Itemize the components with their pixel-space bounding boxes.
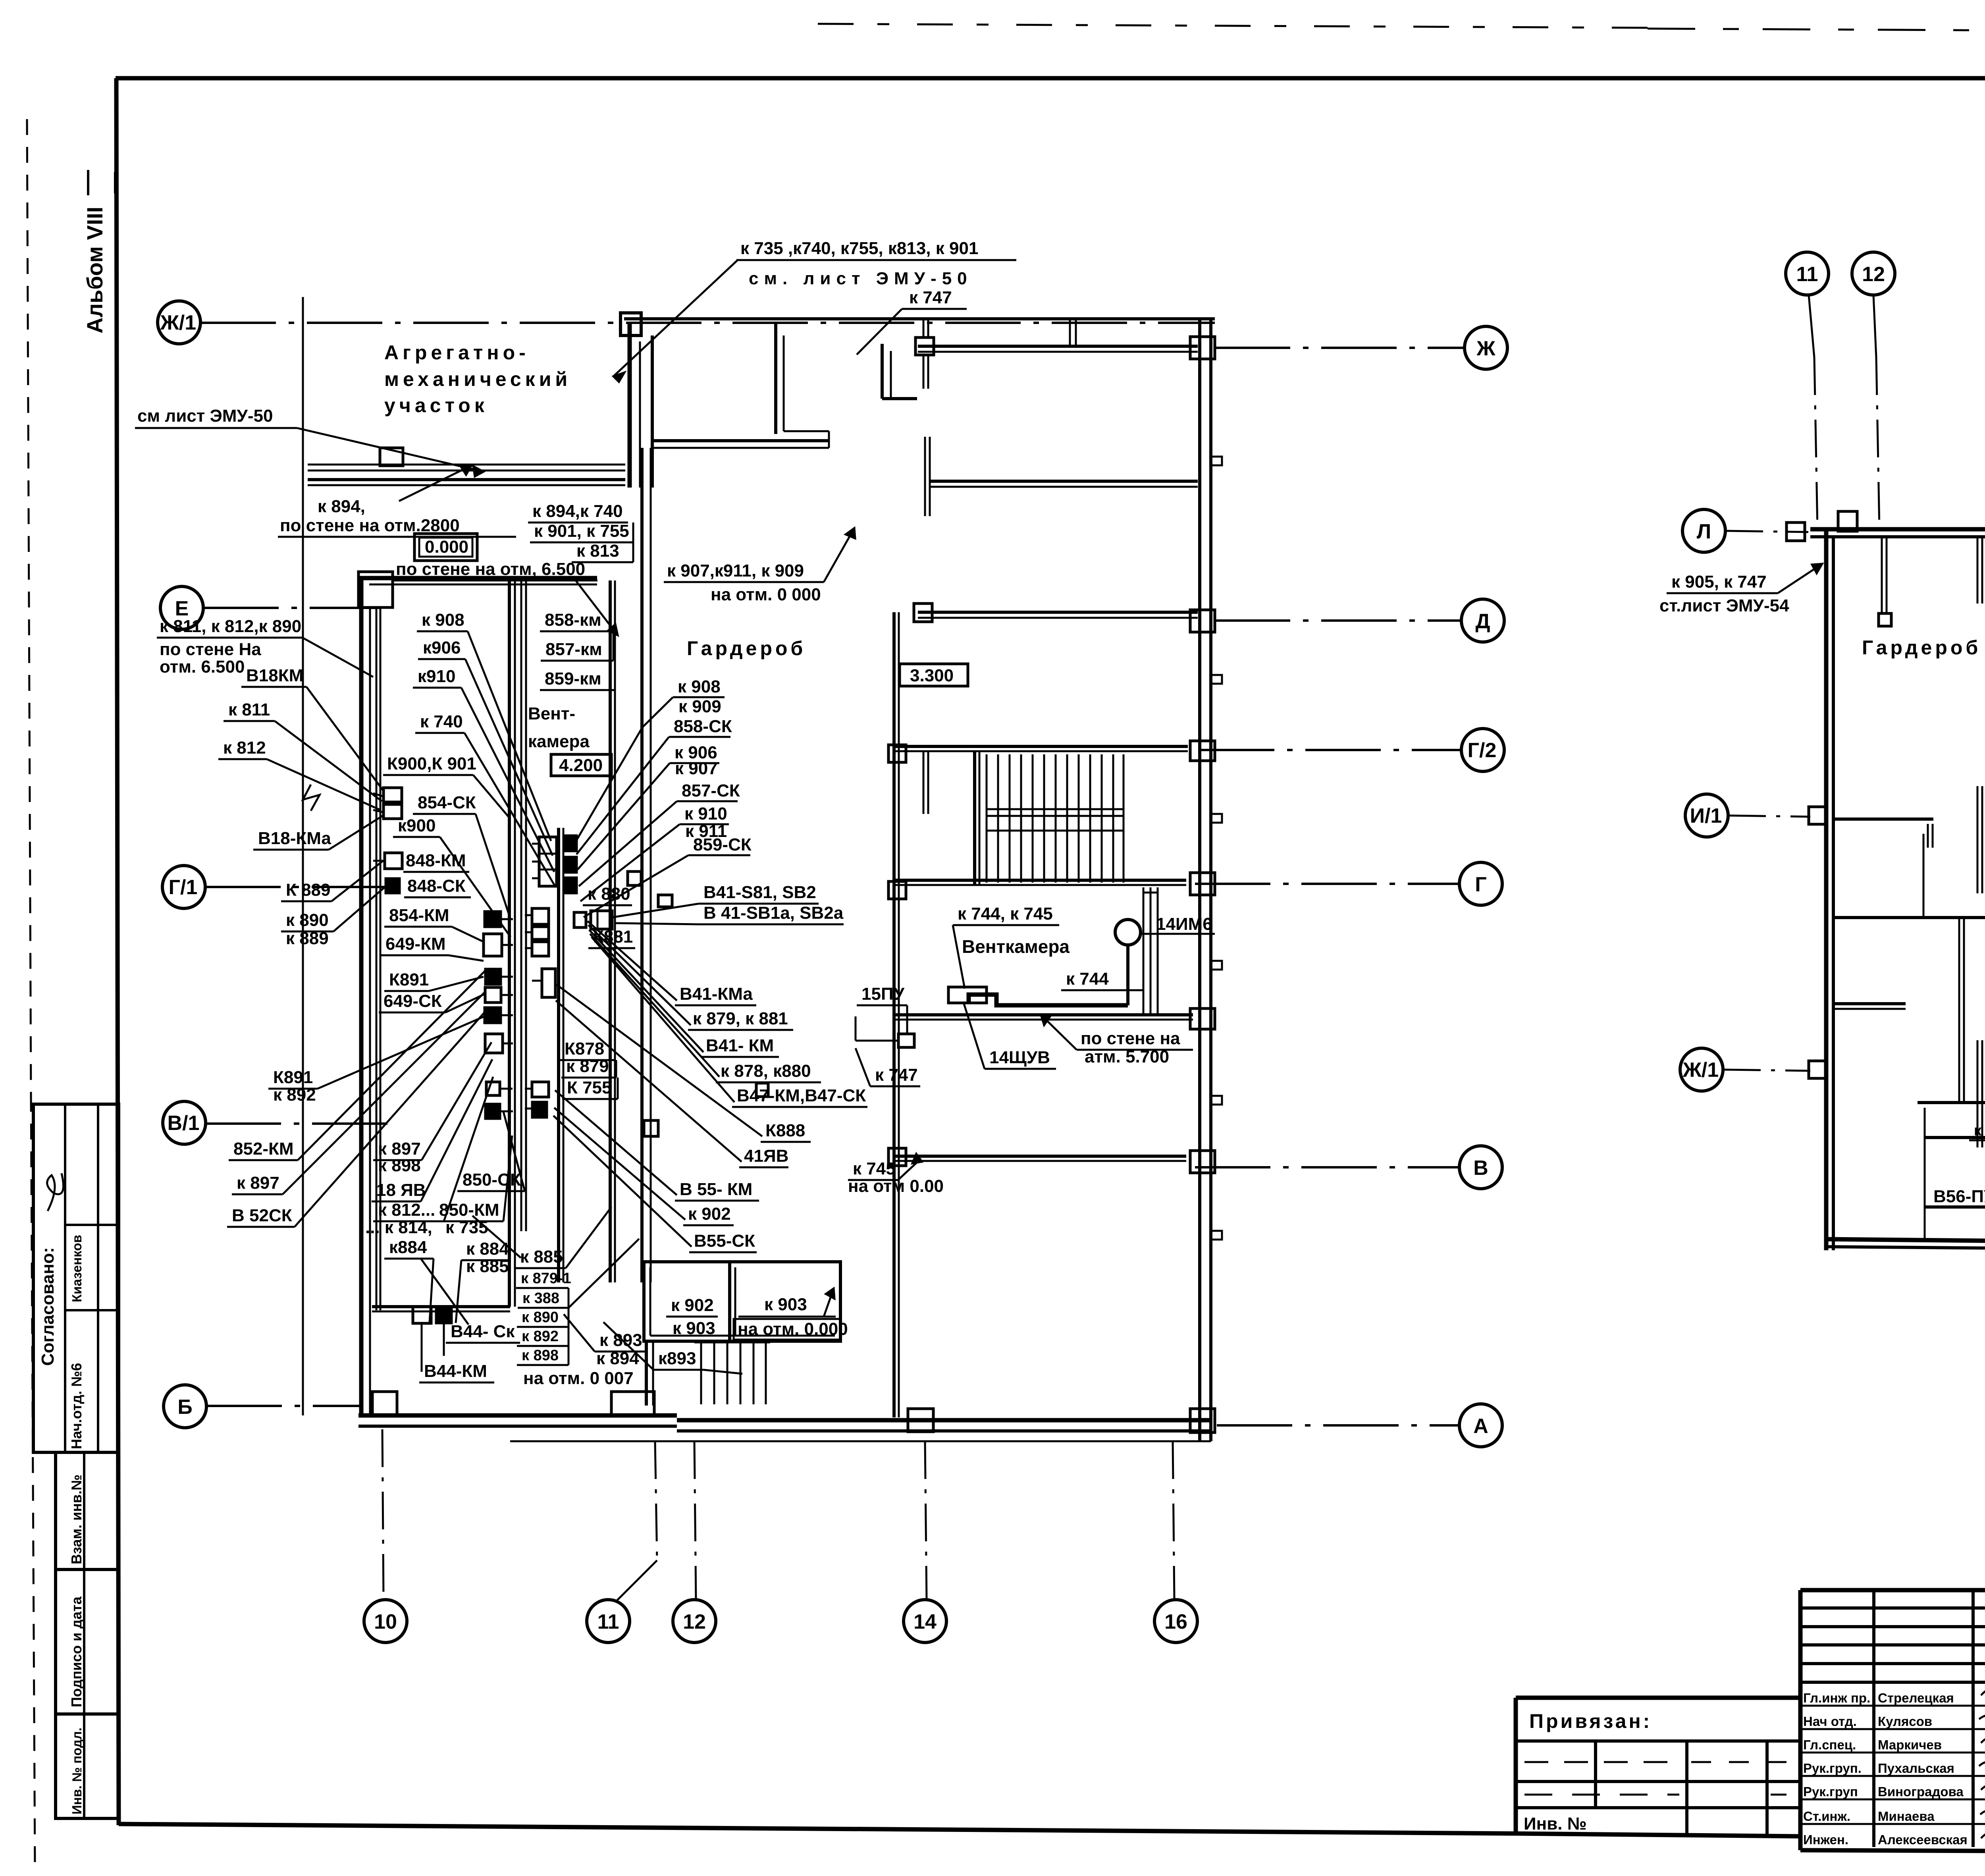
svg-text:Согласовано:: Согласовано:: [38, 1247, 58, 1366]
bottom-left room partition: [372, 1305, 510, 1308]
svg-text:850-СК: 850-СК: [463, 1170, 521, 1190]
axis Ж/1 circle right plan: [1680, 1048, 1723, 1091]
left binding dash-dot line: [27, 119, 31, 1096]
svg-text:к 890: к 890: [286, 910, 329, 930]
svg-text:Л: Л: [1697, 520, 1711, 543]
columns on section wall: [888, 745, 906, 762]
svg-text:В18-КМа: В18-КМа: [258, 829, 331, 848]
svg-text:к 910: к 910: [684, 804, 727, 823]
grid circle 12: [1852, 252, 1895, 295]
axis Г circle right: [1195, 883, 1459, 885]
axis Б circle: [164, 1385, 206, 1428]
axis А circle right: [1217, 1424, 1459, 1427]
svg-text:Инв. №: Инв. №: [1524, 1814, 1587, 1834]
svg-text:механический: механический: [384, 368, 571, 390]
svg-text:0.000: 0.000: [425, 537, 468, 557]
svg-text:Ж: Ж: [1476, 337, 1496, 360]
svg-text:854-КМ: 854-КМ: [389, 906, 449, 925]
device box 14ЩУВ: [948, 987, 987, 1003]
svg-text:ст.лист ЭМУ-54: ст.лист ЭМУ-54: [1659, 596, 1789, 615]
svg-text:к 903: к 903: [673, 1319, 715, 1338]
paper top edge dashes: [818, 24, 1648, 28]
svg-text:12: 12: [683, 1610, 706, 1633]
svg-text:649-КМ: 649-КМ: [385, 934, 446, 954]
svg-text:Г/2: Г/2: [1468, 739, 1497, 762]
svg-text:Агрегатно-: Агрегатно-: [384, 341, 530, 364]
right section partition Г/2 row: [894, 745, 1188, 748]
axis Ж/1 circle: [158, 301, 200, 344]
break symbol on grid 10: [303, 785, 320, 811]
svg-text:В41-S81, SВ2: В41-S81, SВ2: [703, 883, 816, 902]
Гардероб left wall: [640, 448, 644, 1282]
svg-text:14: 14: [913, 1610, 937, 1633]
Агрегатно south wall: [308, 478, 625, 481]
svg-text:к906: к906: [423, 638, 461, 657]
sidebar stamp box 2: Взам. инв.№: [56, 1452, 119, 1569]
svg-text:Гардероб: Гардероб: [1862, 636, 1981, 659]
svg-text:к 909: к 909: [678, 697, 721, 716]
svg-text:Привязан:: Привязан:: [1529, 1710, 1652, 1732]
svg-text:859-км: 859-км: [545, 669, 601, 688]
svg-text:к 902: к 902: [671, 1296, 714, 1315]
svg-text:к 813: к 813: [576, 541, 619, 561]
svg-text:В/1: В/1: [168, 1112, 200, 1135]
stair upper: treads: [987, 754, 1124, 883]
svg-text:Нач.отд. №6: Нач.отд. №6: [68, 1363, 85, 1449]
svg-text:15ПУ: 15ПУ: [861, 984, 905, 1004]
svg-text:по стене на отм, 6.500: по стене на отм, 6.500: [396, 559, 585, 579]
svg-text:11: 11: [1796, 263, 1818, 286]
axis Г/1 row line: [205, 886, 387, 888]
bottom wall Б row left part: [358, 1413, 677, 1418]
leaders from к893 labels: [564, 1314, 653, 1370]
column at grid 11 / axis Ж/1: [621, 313, 641, 335]
svg-text:649-СК: 649-СК: [384, 991, 442, 1011]
cable run to fan: [969, 995, 1128, 1005]
fan circle in Венткамера-2: [1115, 920, 1141, 945]
leader to wall: [613, 260, 738, 376]
svg-text:к 905: к 905: [1974, 1122, 1985, 1139]
svg-text:к 879: к 879: [566, 1057, 609, 1076]
inner second wall pair: [376, 607, 378, 1310]
svg-text:Альбом VIII: Альбом VIII: [82, 206, 107, 334]
svg-text:Алексеевская: Алексеевская: [1878, 1832, 1968, 1847]
svg-text:к 885: к 885: [520, 1247, 563, 1267]
wall from room box to bottom wall: [645, 1341, 648, 1406]
axis Г/1 circle: [162, 866, 205, 908]
grid line 10: [302, 297, 304, 1415]
bottom stair treads: [694, 1342, 770, 1404]
axis И/1 circle: [1685, 794, 1728, 837]
sidebar stamp box 3: Подпись и дата: [56, 1569, 119, 1714]
svg-text:Д: Д: [1475, 610, 1490, 633]
svg-text:К900,К 901: К900,К 901: [387, 754, 476, 773]
svg-text:к 735 ,к740, к755, к813, к 901: к 735 ,к740, к755, к813, к 901: [740, 239, 978, 258]
svg-text:к 908: к 908: [422, 610, 464, 630]
upper-right step walls near Гардероб top: [881, 344, 884, 399]
corner column top-left of inner room: [358, 572, 393, 607]
svg-text:852-КМ: 852-КМ: [233, 1139, 294, 1159]
svg-text:В 52СК: В 52СК: [232, 1206, 292, 1225]
stubs below top wall: [1881, 537, 1883, 613]
к880 device: [574, 912, 586, 927]
titleblock outer top: [1800, 1588, 1985, 1593]
svg-text:18 ЯВ: 18 ЯВ: [376, 1180, 426, 1200]
sheet frame top border: [116, 76, 1985, 81]
svg-text:к 879, к 881: к 879, к 881: [693, 1009, 788, 1028]
svg-text:11: 11: [597, 1610, 619, 1633]
svg-text:Ж/1: Ж/1: [160, 311, 196, 334]
column at bottom wall grid11: [611, 1392, 654, 1415]
svg-text:к 811: к 811: [228, 700, 270, 719]
north wall of Гардероб: [652, 439, 829, 442]
svg-text:Подписо и дата: Подписо и дата: [68, 1596, 85, 1707]
upper partition stub x1960: [774, 324, 777, 434]
grid line 14 bottom: [925, 1441, 927, 1600]
svg-text:к884: к884: [389, 1238, 427, 1257]
svg-text:Кулясов: Кулясов: [1878, 1714, 1932, 1729]
elevation 4.200 box: [551, 754, 611, 776]
grid line 12 bottom: [694, 1441, 696, 1600]
svg-text:Нач отд.: Нач отд.: [1803, 1714, 1857, 1729]
Гардероб right wall: [892, 612, 896, 1417]
svg-text:к 902: к 902: [688, 1204, 731, 1224]
svg-text:камера: камера: [528, 732, 590, 751]
axis Л circle: [1682, 509, 1725, 552]
stair upper: side walls: [973, 751, 976, 885]
partition stub below Г/2: [923, 751, 925, 814]
svg-text:к 901, к 755: к 901, к 755: [534, 521, 629, 541]
signature scribbles: [1979, 1689, 1985, 1839]
svg-text:И/1: И/1: [1690, 804, 1722, 827]
svg-text:на отм. 0 007: на отм. 0 007: [523, 1369, 634, 1388]
cable trunk vertical pair 2: [520, 578, 522, 1231]
svg-text:4.200: 4.200: [559, 756, 603, 775]
right section partition В row: [894, 1155, 1186, 1158]
axis Ж/1 row line: [200, 322, 1215, 324]
svg-text:Б: Б: [177, 1396, 192, 1419]
svg-text:859-СК: 859-СК: [693, 835, 752, 854]
svg-text:к 890: к 890: [522, 1309, 559, 1326]
svg-text:В47-КМ,В47-СК: В47-КМ,В47-СК: [737, 1086, 866, 1105]
svg-text:Вент-: Вент-: [528, 704, 575, 723]
column at bottom wall grid14: [908, 1409, 933, 1432]
svg-text:к 897: к 897: [237, 1173, 279, 1193]
svg-text:к893: к893: [658, 1349, 696, 1368]
svg-text:Г: Г: [1475, 873, 1486, 896]
svg-text:В44- Ск: В44- Ск: [451, 1322, 515, 1341]
inner room left wall: [359, 578, 364, 1415]
svg-text:10: 10: [374, 1610, 397, 1633]
svg-text:14ИМ6: 14ИМ6: [1156, 914, 1212, 934]
Венткамера-2 bottom partition: [894, 1013, 1193, 1016]
inner room top wall y1450: [359, 576, 597, 580]
axis Д circle right: [1215, 619, 1461, 622]
cable risers right of fan: [1143, 887, 1145, 1015]
svg-text:по стене на: по стене на: [1081, 1029, 1180, 1048]
elevation 3.300 box: [900, 664, 968, 686]
central device cluster boxes: [484, 911, 501, 927]
svg-text:к 744: к 744: [1066, 969, 1109, 989]
tick columns x4981: [1977, 537, 1979, 603]
svg-text:к 880: к 880: [588, 884, 630, 904]
bottom wall right part: [677, 1418, 1211, 1423]
svg-text:к 903: к 903: [764, 1295, 807, 1314]
svg-text:к 388: к 388: [522, 1290, 559, 1307]
svg-text:К 755: К 755: [567, 1078, 612, 1097]
signature table verticals: [1872, 1590, 1875, 1847]
svg-text:Взам. инв.№: Взам. инв.№: [68, 1475, 85, 1564]
svg-text:Ж/1: Ж/1: [1682, 1059, 1719, 1082]
right section partition Д row: [918, 611, 1198, 614]
svg-text:Рук.груп.: Рук.груп.: [1803, 1761, 1862, 1776]
axis Б row line: [206, 1405, 359, 1407]
svg-text:к 812...: к 812...: [378, 1200, 435, 1220]
svg-text:Инжен.: Инжен.: [1803, 1832, 1848, 1847]
device boxes pair at Е wall: [384, 788, 402, 802]
svg-text:16: 16: [1164, 1610, 1187, 1633]
svg-text:В 55- КМ: В 55- КМ: [680, 1180, 752, 1199]
svg-text:В: В: [1473, 1157, 1488, 1180]
svg-text:854-СК: 854-СК: [418, 793, 476, 812]
svg-text:12: 12: [1862, 263, 1885, 286]
top wall along axis Ж/1: [624, 317, 1215, 320]
svg-text:К878: К878: [565, 1039, 604, 1059]
svg-text:Ст.инж.: Ст.инж.: [1803, 1809, 1850, 1824]
small interior squares Гардероб: [628, 871, 641, 885]
svg-text:на отм 0.00: на отм 0.00: [848, 1176, 944, 1196]
column at bottom wall grid10: [372, 1392, 397, 1415]
svg-text:В55-СК: В55-СК: [694, 1231, 755, 1251]
axis В/1 row line: [206, 1122, 395, 1125]
svg-text:по стене На: по стене На: [160, 640, 261, 659]
svg-text:41ЯВ: 41ЯВ: [744, 1146, 788, 1166]
svg-text:Венткамера: Венткамера: [962, 936, 1070, 957]
long diagonal leaders from к885-stack up to trunk: [472, 1207, 639, 1308]
svg-text:к 747: к 747: [875, 1065, 918, 1085]
svg-text:к 905, к 747: к 905, к 747: [1671, 572, 1767, 592]
column boxes on top wall: [1838, 511, 1857, 531]
svg-text:отм. 6.500: отм. 6.500: [160, 657, 245, 677]
svg-text:857-км: 857-км: [545, 640, 602, 659]
cable drop with boxes 844: [413, 1307, 431, 1323]
svg-text:Пухальская: Пухальская: [1878, 1761, 1954, 1776]
axis В circle right: [1195, 1166, 1459, 1168]
left wall: [1824, 529, 1829, 1250]
sidebar stamp box 4: Инв.№ подл.: [56, 1714, 119, 1818]
wall stack left of Гардероб (vertical block): [628, 324, 632, 488]
sheet frame left border: [116, 78, 119, 1825]
sidebar stamp box 1: Согласовано: [33, 1104, 119, 1452]
svg-text:к 898: к 898: [378, 1156, 421, 1175]
svg-text:В41- КМ: В41- КМ: [706, 1036, 774, 1055]
svg-text:В 41-SВ1а, SВ2а: В 41-SВ1а, SВ2а: [703, 903, 844, 923]
svg-text:к 907: к 907: [675, 759, 718, 778]
svg-text:В41-КМа: В41-КМа: [680, 984, 753, 1004]
svg-text:к 740: к 740: [420, 712, 463, 731]
box on Агрегатно wall: [380, 448, 403, 466]
svg-text:А: А: [1473, 1415, 1488, 1438]
15ПУ connection box: [898, 1034, 914, 1047]
svg-text:к 898: к 898: [522, 1347, 559, 1364]
axis Е circle: [160, 586, 203, 629]
window ticks on right outer wall: [1211, 457, 1222, 465]
Венткамера right wall: [609, 580, 612, 1282]
svg-text:см. лист ЭМУ-50: см. лист ЭМУ-50: [749, 269, 973, 288]
svg-text:850-КМ: 850-КМ: [439, 1200, 499, 1220]
svg-text:Стрелецкая: Стрелецкая: [1878, 1691, 1954, 1705]
svg-text:к 894,: к 894,: [318, 497, 365, 516]
svg-text:см лист ЭМУ-50: см лист ЭМУ-50: [137, 406, 273, 426]
svg-text:Маркичев: Маркичев: [1878, 1737, 1942, 1752]
cable trunk vertical pair 1: [508, 578, 511, 1307]
svg-text:к 747: к 747: [909, 288, 952, 307]
fan of leaders from right-side labels to cluster: [553, 921, 762, 1247]
svg-text:В18КМ: В18КМ: [246, 666, 303, 685]
svg-text:К888: К888: [765, 1121, 805, 1140]
svg-text:858-СК: 858-СК: [674, 717, 732, 736]
svg-text:14ЩУВ: 14ЩУВ: [989, 1048, 1050, 1067]
привязан table: [1516, 1696, 1800, 1700]
right cluster: 858 grid: [539, 837, 557, 886]
axis Ж circle right: [1215, 347, 1465, 349]
svg-text:К 889: К 889: [286, 880, 331, 900]
svg-text:Рук.груп: Рук.груп: [1803, 1784, 1858, 1799]
svg-text:858-км: 858-км: [545, 610, 601, 630]
svg-text:Гл.инж пр.: Гл.инж пр.: [1803, 1691, 1870, 1705]
svg-text:к 907,к911, к 909: к 907,к911, к 909: [667, 561, 804, 580]
signature table horizontals: [1800, 1606, 1985, 1610]
svg-text:В56-ПУ: В56-ПУ: [1933, 1187, 1985, 1206]
svg-text:к 878, к880: к 878, к880: [721, 1061, 811, 1081]
svg-text:К891: К891: [273, 1068, 313, 1087]
svg-text:к 894: к 894: [596, 1349, 639, 1368]
svg-text:к 893: к 893: [599, 1330, 642, 1350]
svg-text:Инв. № подл.: Инв. № подл.: [69, 1728, 84, 1814]
svg-text:к 744, к 745: к 744, к 745: [958, 904, 1053, 924]
svg-text:3.300: 3.300: [910, 666, 954, 685]
label 848-СК + box: [385, 878, 400, 893]
bottom wall: [1826, 1239, 1985, 1241]
svg-text:Гардероб: Гардероб: [687, 637, 806, 659]
svg-text:к 812: к 812: [223, 738, 266, 758]
svg-text:к 908: к 908: [678, 677, 721, 696]
svg-text:Минаева: Минаева: [1878, 1809, 1935, 1824]
top room divider wall: [1069, 320, 1071, 346]
cable run по стене (Агрегатно south): [308, 464, 625, 466]
svg-text:857-СК: 857-СК: [682, 781, 740, 800]
signature scribble: [47, 1173, 64, 1211]
svg-text:848-СК: 848-СК: [407, 876, 466, 896]
columns on right outer wall: [1190, 337, 1215, 359]
top wall: [1810, 527, 1985, 532]
svg-text:к 892: к 892: [522, 1328, 559, 1345]
svg-text:Г/1: Г/1: [169, 876, 198, 899]
wall right of trunk: [557, 828, 560, 1282]
svg-text:Виноградова: Виноградова: [1878, 1784, 1964, 1799]
room box к902 к903 (bottom right): [644, 1262, 840, 1341]
grid line 11 bottom: [655, 1441, 657, 1560]
svg-text:на отм. 0.000: на отм. 0.000: [738, 1319, 848, 1339]
svg-text:К891: К891: [389, 970, 429, 989]
axis Е row line: [203, 607, 381, 609]
signature rows text: [1803, 1691, 1985, 1847]
svg-text:к900: к900: [398, 816, 436, 835]
grid line 16 bottom: [1173, 1441, 1174, 1600]
right section partition Г row: [894, 879, 1186, 882]
right outer wall of left plan: [1198, 319, 1201, 1441]
svg-text:848-КМ: 848-КМ: [406, 851, 466, 870]
svg-text:В44-КМ: В44-КМ: [424, 1361, 487, 1381]
axis В/1 circle: [163, 1101, 206, 1144]
svg-text:к 894,к 740: к 894,к 740: [532, 501, 623, 521]
svg-text:к910: к910: [418, 667, 455, 686]
axis Г/2 circle right: [1199, 749, 1461, 751]
right section partition (between Ж and Д): [929, 480, 1198, 483]
sheet frame bottom border: [119, 1824, 1516, 1834]
svg-text:к 811, к 812,к 890: к 811, к 812,к 890: [160, 617, 301, 636]
Гардероб interior partitions: [1833, 817, 1933, 821]
label 848-КМ + box: [385, 853, 402, 869]
svg-text:к 879-1: к 879-1: [521, 1270, 571, 1287]
svg-text:Киазенков: Киазенков: [69, 1235, 84, 1302]
label 0.000 box: [414, 534, 477, 561]
grid circle 11: [1786, 252, 1829, 295]
mid boxes right of trunk: [532, 908, 549, 924]
svg-text:к 745: к 745: [853, 1159, 896, 1178]
right section partition Ж row: [918, 345, 1198, 348]
svg-text:на отм. 0 000: на отм. 0 000: [711, 585, 821, 604]
svg-text:участок: участок: [384, 394, 488, 416]
svg-text:Гл.спец.: Гл.спец.: [1803, 1737, 1856, 1752]
